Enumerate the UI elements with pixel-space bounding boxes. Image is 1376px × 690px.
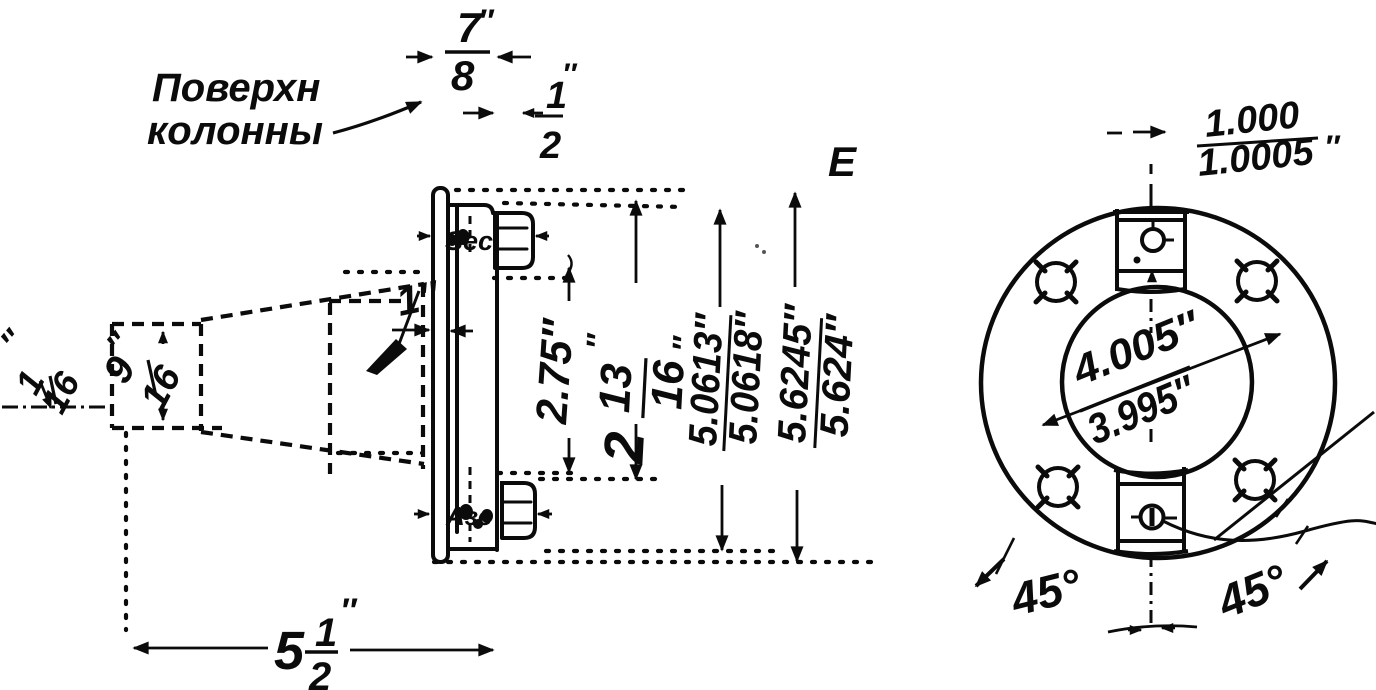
svg-text:E: E <box>828 138 858 185</box>
svg-text:8: 8 <box>451 52 475 99</box>
svg-text:5: 5 <box>274 621 305 681</box>
svg-text:колонны: колонны <box>147 109 323 153</box>
svg-text:16: 16 <box>133 358 190 416</box>
svg-text:45°: 45° <box>1209 554 1294 629</box>
svg-text:5.0618″: 5.0618″ <box>721 309 772 445</box>
svg-text:″: ″ <box>0 322 34 360</box>
svg-text:1″: 1″ <box>393 273 444 325</box>
svg-text:5.624″: 5.624″ <box>812 312 862 438</box>
svg-text:2: 2 <box>308 655 331 690</box>
svg-text:″: ″ <box>478 3 495 39</box>
svg-text:″: ″ <box>1324 129 1341 165</box>
svg-text:45°: 45° <box>1005 558 1087 626</box>
svg-text:2: 2 <box>591 430 656 465</box>
svg-text:Поверхн: Поверхн <box>152 66 320 110</box>
svg-text:″: ″ <box>562 58 578 91</box>
svg-text:13: 13 <box>590 362 641 413</box>
svg-text:16: 16 <box>33 364 88 419</box>
svg-text:″: ″ <box>579 332 616 351</box>
svg-text:″: ″ <box>340 592 358 630</box>
svg-text:2.75″: 2.75″ <box>527 316 583 426</box>
svg-text:1: 1 <box>315 611 337 655</box>
svg-text:2: 2 <box>539 125 561 167</box>
